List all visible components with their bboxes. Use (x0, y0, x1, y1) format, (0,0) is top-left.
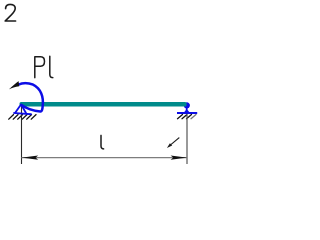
dimension line (22, 157, 188, 159)
beam (20, 102, 187, 107)
left dimension arrowhead (22, 156, 38, 160)
right hatching (178, 115, 197, 119)
roller support B hinge dot (184, 102, 190, 108)
figure number 2 (5, 4, 15, 21)
load label Pl (35, 56, 53, 77)
left extension line (21, 104, 23, 164)
right dimension arrowhead (171, 156, 187, 160)
moment arrowhead (9, 81, 19, 89)
pin support A (left) (14, 105, 31, 115)
roller support B stem (184, 107, 190, 112)
moment arrow Pl (arc) (18, 83, 42, 111)
left hatching (ground) (9, 115, 36, 120)
right extension line (186, 114, 188, 164)
right ground line (177, 112, 197, 114)
small slope arrow (167, 138, 179, 148)
span label l (101, 135, 104, 149)
